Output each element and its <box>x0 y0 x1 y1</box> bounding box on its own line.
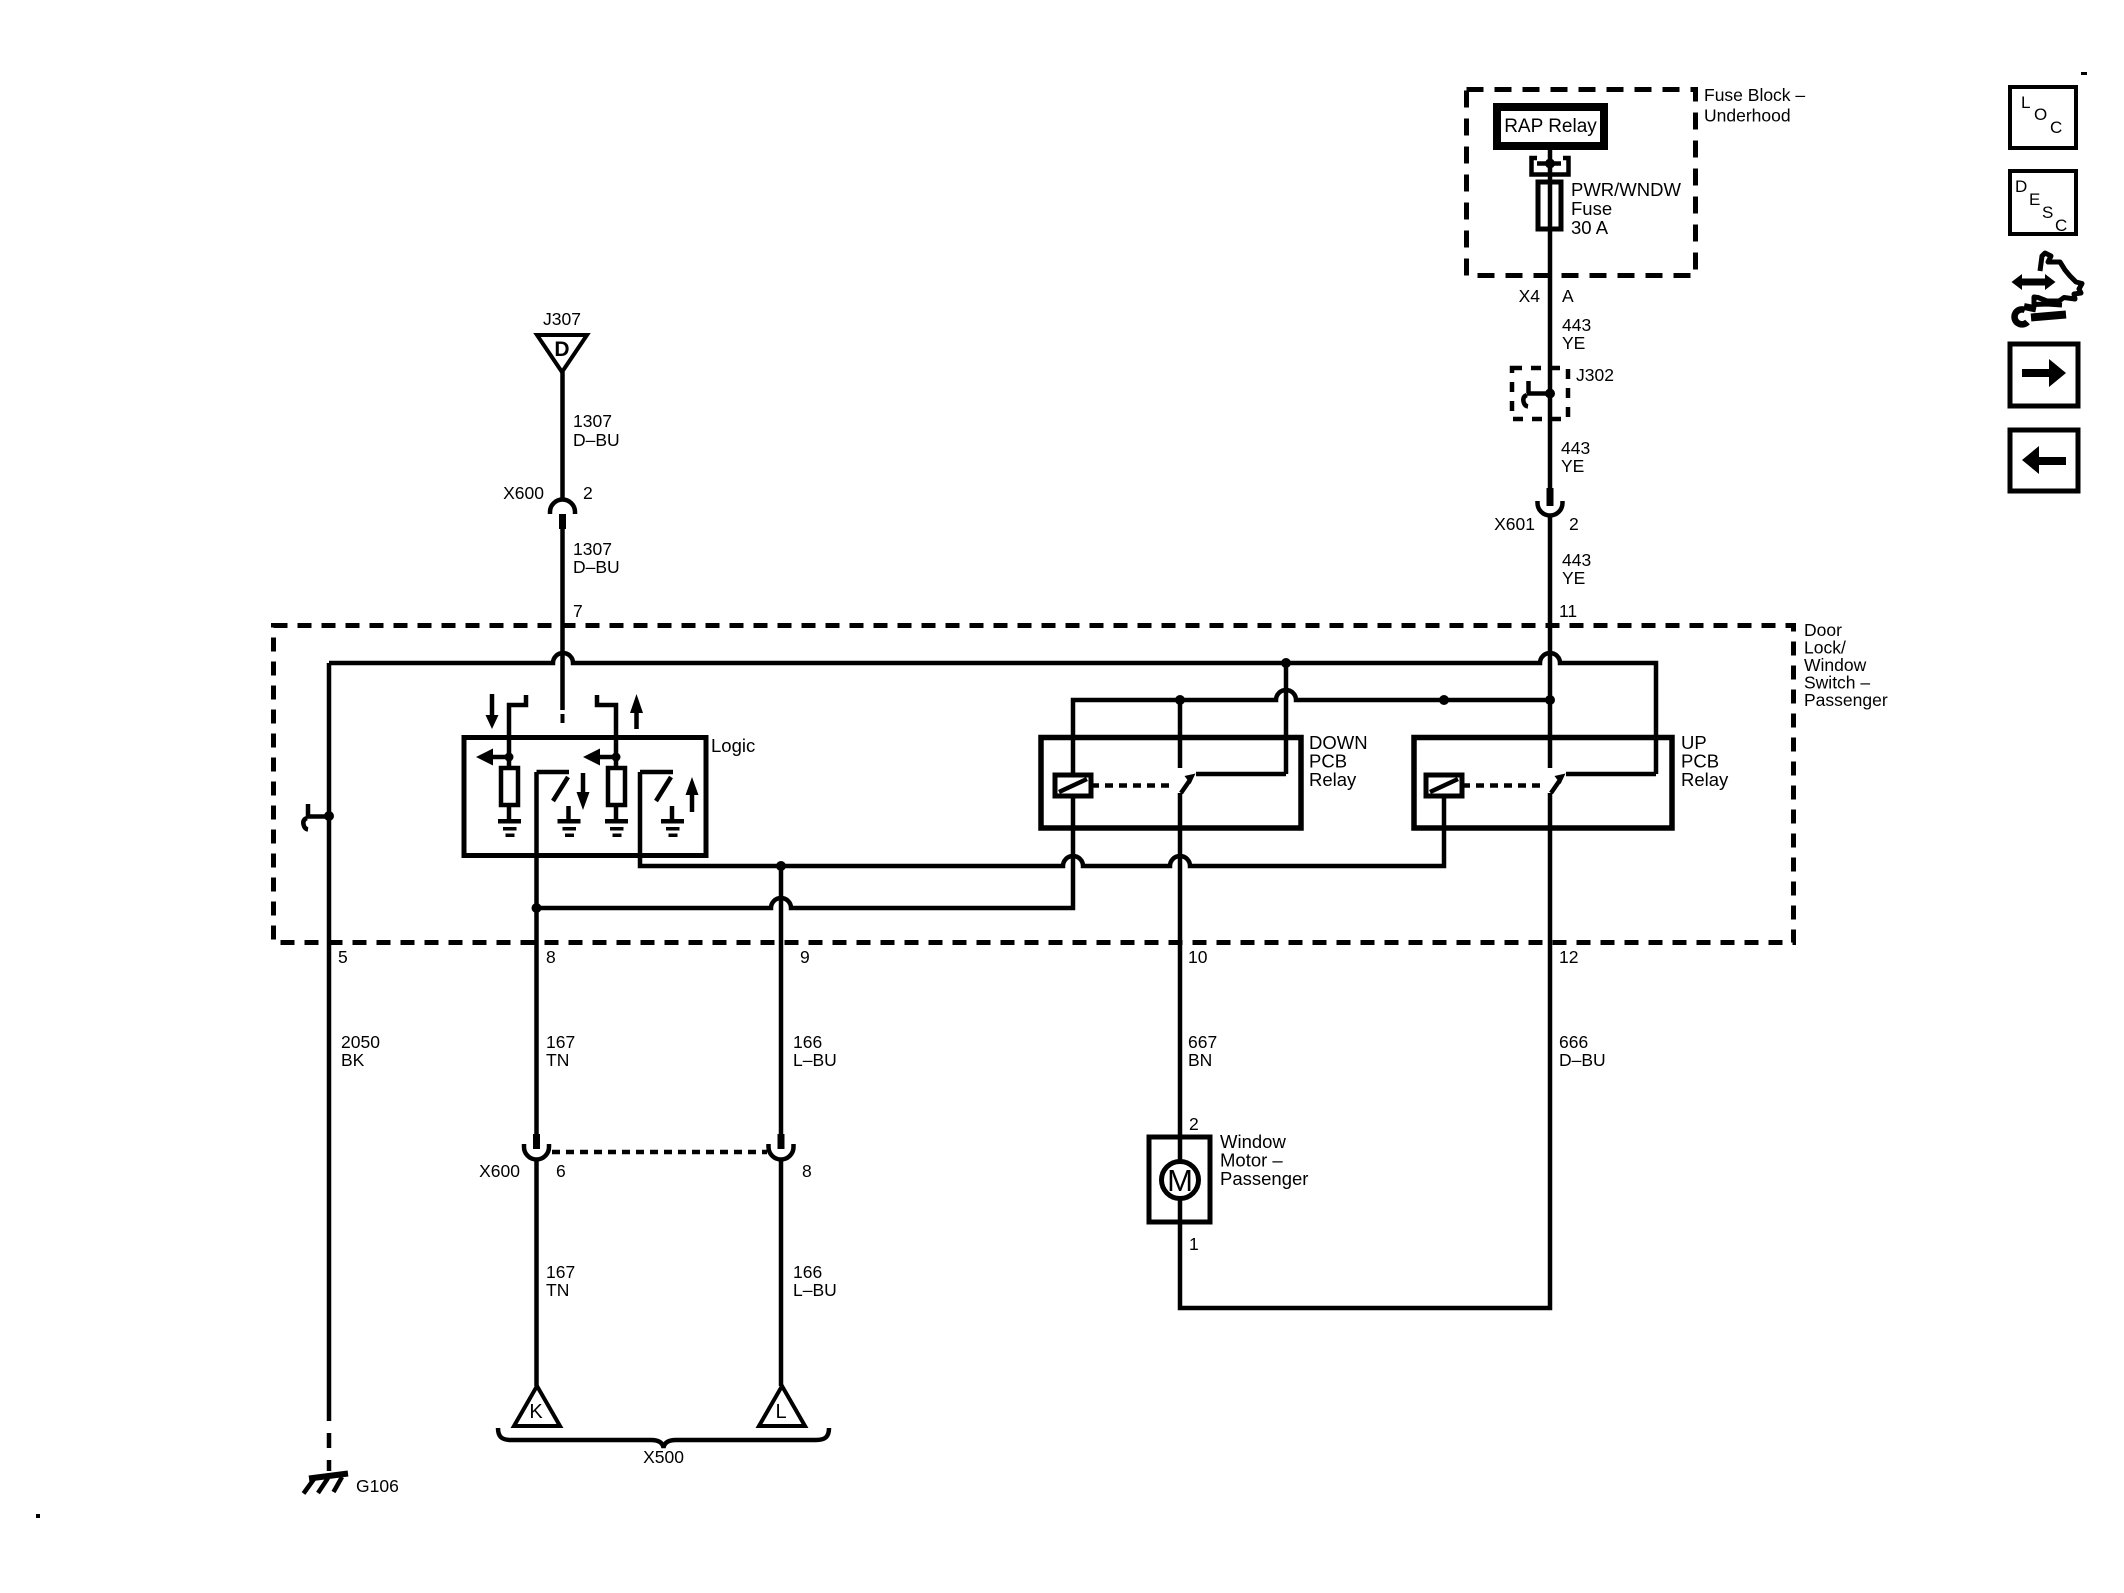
label X600 | 6 | 8 <box>479 1161 812 1181</box>
node dot logic resistor 1 <box>505 753 514 762</box>
DOWN relay switch blade <box>1181 774 1196 794</box>
svg-text:Fuse: Fuse <box>1571 198 1612 219</box>
wire DOWN coil return y=908 to logic junction <box>537 796 1074 908</box>
svg-text:1307: 1307 <box>573 539 612 559</box>
fuse holder crossbar <box>1537 161 1561 166</box>
triangle connector K <box>514 1386 560 1426</box>
svg-text:A: A <box>1562 286 1574 306</box>
arrow up (inside logic, S2) <box>686 777 699 812</box>
wire logic entry bend (down branch) <box>509 695 526 757</box>
wire 443 YE X601 to pin 11 <box>1548 517 1553 768</box>
svg-text:8: 8 <box>802 1161 812 1181</box>
svg-text:7: 7 <box>573 601 583 621</box>
triangle connector J307 D <box>537 309 587 372</box>
wire label 167 TN (lower) <box>546 1262 575 1300</box>
switch S1 blade <box>553 777 568 801</box>
stray mark top right <box>2081 72 2087 75</box>
svg-text:TN: TN <box>546 1050 569 1070</box>
svg-text:D: D <box>2015 177 2027 196</box>
svg-text:J307: J307 <box>543 309 581 329</box>
svg-text:Underhood: Underhood <box>1704 106 1791 126</box>
switch S2 (up) common wire <box>640 770 673 775</box>
switch S2 ground contact <box>661 806 684 837</box>
feed rail wire y=700 <box>1073 690 1550 775</box>
label X601 | 2 <box>1494 514 1579 534</box>
wire label 1307 D-BU (upper) <box>573 411 620 450</box>
svg-text:O: O <box>2034 105 2047 124</box>
svg-text:2: 2 <box>1189 1114 1199 1134</box>
switch S2 blade <box>656 777 671 801</box>
svg-text:BK: BK <box>341 1050 365 1070</box>
window motor M passenger <box>1149 1137 1210 1222</box>
svg-text:667: 667 <box>1188 1032 1217 1052</box>
svg-text:1: 1 <box>1189 1234 1199 1254</box>
svg-text:8: 8 <box>546 947 556 967</box>
svg-text:X4: X4 <box>1519 286 1541 306</box>
node dot DOWN switch common <box>1175 695 1185 705</box>
svg-text:X500: X500 <box>643 1447 684 1467</box>
svg-text:G106: G106 <box>356 1476 399 1496</box>
svg-text:Relay: Relay <box>1309 769 1357 790</box>
svg-text:5: 5 <box>338 947 348 967</box>
svg-text:X601: X601 <box>1494 514 1535 534</box>
relay RAP Relay box <box>1493 103 1608 150</box>
wire 1307 D-BU J307 to X600 <box>560 372 565 500</box>
label PWR/WNDW Fuse 30 A <box>1571 179 1681 238</box>
icon LOC box <box>2010 87 2076 148</box>
svg-text:166: 166 <box>793 1032 822 1052</box>
svg-text:YE: YE <box>1562 333 1585 353</box>
label X600 | 2 <box>503 483 593 503</box>
clip splice on wire 5 <box>303 804 334 830</box>
wire label 166 L-BU (upper) <box>793 1032 837 1070</box>
wire 443 YE from RAP Relay through fuse to X601 <box>1548 150 1553 488</box>
svg-text:C: C <box>2050 118 2062 137</box>
node dot wire 9 branch <box>776 861 786 871</box>
wire label 1307 D-BU (lower) <box>573 539 620 577</box>
svg-text:X600: X600 <box>503 483 544 503</box>
svg-text:Logic: Logic <box>711 735 755 756</box>
triangle connector L <box>759 1386 805 1426</box>
svg-text:12: 12 <box>1559 947 1578 967</box>
svg-text:RAP Relay: RAP Relay <box>1504 116 1597 137</box>
svg-text:9: 9 <box>800 947 810 967</box>
UP relay coil actuation dashed link <box>1462 783 1543 788</box>
svg-text:2: 2 <box>1569 514 1579 534</box>
door lock / window switch passenger dashed box <box>274 626 1794 943</box>
svg-text:166: 166 <box>793 1262 822 1282</box>
svg-text:D–BU: D–BU <box>573 430 620 450</box>
node dot logic resistor 2 <box>612 753 621 762</box>
connector X600 pin 6 male pin <box>533 1134 540 1149</box>
DOWN PCB relay box <box>1041 732 1368 828</box>
svg-text:BN: BN <box>1188 1050 1212 1070</box>
DOWN relay coil <box>1055 775 1091 796</box>
UP PCB relay box <box>1414 732 1729 828</box>
wire 167 TN X600 to K <box>534 1160 539 1387</box>
connector X601 pin 2 female socket arc <box>1538 501 1563 516</box>
arrow left (resistor 1 tap) <box>476 749 509 766</box>
svg-text:443: 443 <box>1562 315 1591 335</box>
node dot 443 YE feed <box>1545 695 1555 705</box>
wire DOWN relay NO contact rail <box>1196 772 1286 777</box>
ground G106 <box>304 1474 349 1494</box>
label Door Lock/ Window Switch - Passenger <box>1804 620 1888 710</box>
node dot DOWN relay NO branch <box>1281 658 1291 668</box>
wire label 667 BN <box>1188 1032 1217 1070</box>
wire DOWN relay NO contact branch <box>1284 663 1289 774</box>
wire logic entry bend (up branch) <box>597 695 616 757</box>
wire logic S2 to UP coil y=866 <box>640 772 1444 866</box>
resistor R2 <box>608 757 625 805</box>
svg-text:L: L <box>775 1401 786 1423</box>
svg-text:Passenger: Passenger <box>1804 690 1888 710</box>
wire label 443 YE (top) <box>1562 315 1591 353</box>
pin label X4 | A <box>1519 286 1574 306</box>
wire label 167 TN (upper) <box>546 1032 575 1070</box>
svg-text:J302: J302 <box>1576 365 1614 385</box>
fuse block underhood dashed box <box>1467 90 1696 276</box>
resistor R1 <box>501 757 518 805</box>
connector X600 body dashed link <box>552 1150 767 1155</box>
wire 9 to X600-8 <box>779 866 784 1134</box>
svg-text:D–BU: D–BU <box>573 557 620 577</box>
label Fuse Block - Underhood <box>1704 85 1805 126</box>
svg-text:11: 11 <box>1559 601 1577 621</box>
svg-text:443: 443 <box>1561 438 1590 458</box>
svg-text:D: D <box>554 338 569 361</box>
wire label 166 L-BU (lower) <box>793 1262 837 1300</box>
icon back arrow box <box>2010 430 2078 491</box>
wire label 666 D-BU <box>1559 1032 1606 1070</box>
UP relay coil <box>1426 775 1462 796</box>
fuse PWR/WNDW 30 A <box>1538 182 1561 229</box>
connector X600 pin 8 female socket arc <box>769 1144 794 1159</box>
label Window Motor - Passenger <box>1220 1131 1308 1189</box>
svg-text:S: S <box>2042 203 2053 222</box>
arrow down (inside logic, S1) <box>577 773 590 810</box>
svg-text:M: M <box>1167 1163 1193 1198</box>
wire label 443 YE (middle) <box>1561 438 1590 476</box>
wire 166 L-BU X600 to L <box>779 1160 784 1387</box>
svg-text:L: L <box>2021 93 2030 112</box>
ground rail wire y=663 <box>329 653 1656 774</box>
svg-text:C: C <box>2055 216 2067 235</box>
DOWN relay switch upper contact wire <box>1178 700 1183 768</box>
svg-text:L–BU: L–BU <box>793 1280 837 1300</box>
wire 8 logic S1 to X600-6 <box>534 772 539 1134</box>
svg-text:30 A: 30 A <box>1571 217 1609 238</box>
ground (resistor 2) <box>605 805 628 837</box>
fuse holder bracket <box>1532 158 1569 175</box>
switch S1 (down) common wire <box>537 770 570 775</box>
svg-text:2: 2 <box>583 483 593 503</box>
wire 1307 D-BU X600 to pin 7 <box>561 529 565 723</box>
wire label 443 YE (lower) <box>1562 550 1591 588</box>
svg-text:YE: YE <box>1561 456 1584 476</box>
svg-text:Passenger: Passenger <box>1220 1168 1308 1189</box>
svg-text:167: 167 <box>546 1262 575 1282</box>
svg-text:L–BU: L–BU <box>793 1050 837 1070</box>
svg-text:X600: X600 <box>479 1161 520 1181</box>
splice J302 dashed box <box>1512 368 1568 419</box>
svg-text:D–BU: D–BU <box>1559 1050 1606 1070</box>
svg-text:YE: YE <box>1562 568 1585 588</box>
logic box U1 <box>464 735 755 856</box>
svg-text:PWR/WNDW: PWR/WNDW <box>1571 179 1681 200</box>
wire 666 D-BU UP relay to motor return <box>1180 793 1550 1308</box>
arrow down (outside logic, left) <box>486 694 499 729</box>
wire label 2050 BK <box>341 1032 380 1070</box>
svg-text:TN: TN <box>546 1280 569 1300</box>
splice J302 clip symbol <box>1523 381 1555 407</box>
node dot wire 8 junction <box>532 903 542 913</box>
svg-text:Relay: Relay <box>1681 769 1729 790</box>
UP relay switch blade <box>1551 774 1566 794</box>
ground (resistor 1) <box>498 805 521 837</box>
junction dot fuse input <box>1545 159 1555 169</box>
wire 2050 BK (pin 5 to G106) <box>327 663 332 1471</box>
svg-text:443: 443 <box>1562 550 1591 570</box>
node dot UP coil feed <box>1439 695 1449 705</box>
DOWN relay coil actuation dashed link <box>1091 783 1172 788</box>
svg-text:2050: 2050 <box>341 1032 380 1052</box>
arrow up (outside logic, right) <box>630 694 643 729</box>
svg-text:1307: 1307 <box>573 411 612 431</box>
svg-text:K: K <box>529 1401 543 1423</box>
connector X600 pin 2 male pin <box>559 514 566 529</box>
arrow left (resistor 2 tap) <box>583 749 616 766</box>
icon forward arrow box <box>2010 344 2078 406</box>
connector X601 pin 2 male pin <box>1547 488 1554 506</box>
brace X500 <box>498 1428 829 1467</box>
icon part-locator (outline, double arrow, wrench) <box>2012 253 2083 324</box>
connector X600 pin 6 female socket arc <box>524 1144 549 1159</box>
stray mark bottom left <box>36 1514 40 1518</box>
svg-text:6: 6 <box>556 1161 566 1181</box>
svg-text:666: 666 <box>1559 1032 1588 1052</box>
svg-text:Fuse Block –: Fuse Block – <box>1704 85 1805 105</box>
svg-text:E: E <box>2029 190 2040 209</box>
connector X600 pin 8 male pin <box>778 1134 785 1149</box>
switch S1 ground contact <box>558 806 581 837</box>
wire UP relay NO contact rail <box>1566 772 1656 777</box>
connector X600 pin 2 female socket arc <box>550 500 575 515</box>
icon DESC box <box>2010 171 2076 235</box>
wire 667 BN DOWN relay to motor <box>1178 793 1183 1137</box>
svg-text:167: 167 <box>546 1032 575 1052</box>
svg-text:10: 10 <box>1188 947 1208 967</box>
